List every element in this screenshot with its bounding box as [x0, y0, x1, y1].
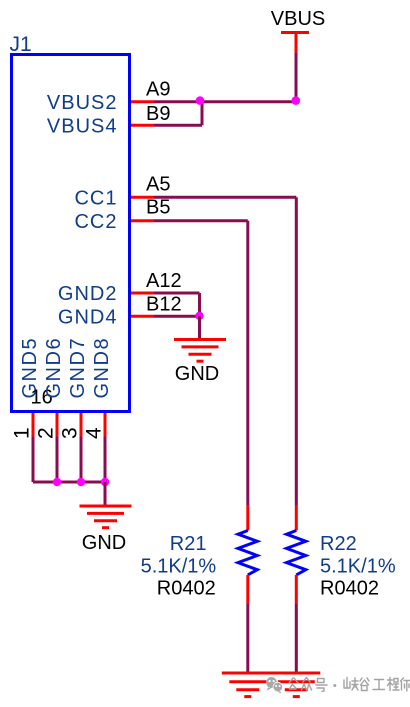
svg-text:R21: R21 — [170, 533, 207, 555]
svg-text:GND: GND — [82, 532, 126, 554]
junction dot B9/A9 — [196, 96, 205, 105]
pin 3 GND7 — [59, 337, 90, 439]
pin A12 GND2 — [58, 270, 182, 305]
svg-text:5.1K/1%: 5.1K/1% — [141, 556, 217, 578]
wire B12 to ground — [198, 316, 201, 339]
svg-text:GND7: GND7 — [67, 337, 89, 399]
svg-text:4: 4 — [83, 427, 106, 439]
watermark icon — [266, 677, 282, 694]
svg-text:VBUS4: VBUS4 — [47, 115, 118, 137]
svg-text:5.1K/1%: 5.1K/1% — [320, 556, 396, 578]
svg-text:VBUS2: VBUS2 — [47, 92, 118, 114]
svg-text:R0402: R0402 — [157, 577, 216, 599]
junction dot VBUS/A9 — [292, 96, 301, 105]
svg-text:R22: R22 — [320, 533, 357, 555]
svg-text:3: 3 — [59, 427, 82, 439]
svg-text:CC2: CC2 — [74, 211, 117, 233]
svg-text:VBUS: VBUS — [271, 8, 325, 30]
junction dot pin3 — [77, 478, 85, 486]
pin 4 GND8 — [83, 337, 114, 439]
wire R21 to ground — [246, 604, 249, 673]
wire CC1 riser to R22 — [295, 197, 298, 505]
pin B5 CC2 — [74, 197, 170, 233]
svg-text:J1: J1 — [10, 33, 32, 56]
wire pin3 down — [80, 437, 83, 483]
resistor R22 — [287, 505, 396, 604]
svg-text:A12: A12 — [146, 270, 182, 292]
pin 1 GND5 — [11, 337, 42, 439]
wire A12 horizontal — [154, 292, 200, 295]
svg-text:B5: B5 — [146, 197, 170, 219]
pin A5 CC1 — [74, 173, 170, 209]
wire CC2 riser to R21 — [246, 221, 249, 505]
svg-text:GND4: GND4 — [58, 306, 118, 328]
pin 2 GND6 — [35, 337, 66, 439]
wire B9 horizontal — [154, 124, 202, 127]
wire B12 horizontal — [154, 315, 200, 318]
ground symbol 3 under R21 — [222, 673, 274, 697]
wire CC2 horizontal — [154, 219, 248, 222]
svg-text:GND2: GND2 — [58, 283, 118, 305]
svg-text:1: 1 — [11, 427, 34, 439]
svg-text:B9: B9 — [146, 103, 170, 125]
wire CC1 horizontal — [154, 196, 296, 199]
watermark text (vector strokes) — [289, 678, 410, 692]
junction dot pin2 — [53, 478, 61, 486]
pin A9 VBUS2 — [47, 79, 171, 114]
wire pin4 down — [104, 437, 107, 483]
resistor R21 — [141, 505, 258, 604]
power symbol VBUS — [281, 33, 309, 54]
svg-text:R0402: R0402 — [320, 577, 379, 599]
wire B9 riser — [201, 102, 204, 126]
wire A9 to VBUS — [154, 100, 296, 103]
wire A12 riser — [198, 293, 201, 316]
wire pin2 down — [56, 437, 59, 483]
wire R22 to ground — [295, 604, 298, 673]
wire bus to ground — [104, 482, 107, 506]
svg-text:A5: A5 — [146, 173, 170, 195]
ground symbol 4 under R22 — [268, 673, 320, 697]
connector J1 body — [12, 55, 130, 412]
wire pin1 down — [32, 437, 35, 483]
wire ground bus — [33, 481, 105, 484]
svg-text:A9: A9 — [146, 79, 170, 101]
svg-text:GND6: GND6 — [43, 337, 65, 399]
junction dot B12 — [195, 312, 203, 320]
svg-text:GND8: GND8 — [91, 337, 113, 399]
junction dot pin4 — [101, 478, 109, 486]
svg-text:B12: B12 — [146, 293, 182, 315]
pin B12 GND4 — [58, 293, 182, 328]
pin B9 VBUS4 — [47, 103, 171, 137]
svg-text:GND: GND — [175, 363, 219, 385]
ground symbol 2 — [80, 506, 132, 528]
wire VBUS riser — [295, 53, 298, 102]
ground symbol 1 — [174, 340, 226, 362]
svg-text:2: 2 — [35, 427, 58, 439]
svg-text:CC1: CC1 — [74, 187, 117, 209]
